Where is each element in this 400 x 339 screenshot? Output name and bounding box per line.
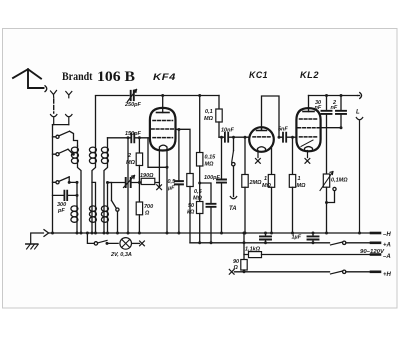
grid wire with capacitor 150pF <box>108 137 151 139</box>
KL2 screen wire <box>321 127 342 129</box>
socket cup 1 <box>51 115 57 125</box>
heater switch <box>94 242 97 245</box>
chassis plug <box>44 230 49 237</box>
coil L1 upper winding <box>71 147 78 152</box>
chassis rail -H <box>49 232 371 234</box>
switch S3 <box>56 181 59 184</box>
resistor 50 kOhm <box>197 202 203 214</box>
switch S4 <box>116 208 119 211</box>
wire v2 <box>138 138 140 153</box>
svg-text:50: 50 <box>188 203 194 209</box>
resistor 2MOhm (KC1 grid) <box>244 137 246 174</box>
svg-text:Brandt: Brandt <box>62 71 93 83</box>
svg-text:0,15: 0,15 <box>205 155 217 161</box>
heater tap x <box>157 183 162 190</box>
svg-text:0,5: 0,5 <box>194 189 203 195</box>
resistor 1 MOhm (KL2 grid) <box>292 137 294 174</box>
capacitor 0.5uF (screen bypass) <box>178 130 180 234</box>
svg-text:10nF: 10nF <box>221 128 234 134</box>
title Brandt 106 B <box>62 69 135 85</box>
KC1 cathode lead to x <box>256 151 261 164</box>
svg-text:Ω: Ω <box>144 211 150 217</box>
coupling capacitor 5nF <box>279 136 297 138</box>
svg-text:106 B: 106 B <box>97 69 135 85</box>
svg-text:1: 1 <box>264 176 267 182</box>
KL2 grid rows <box>300 118 318 120</box>
svg-text:KL2: KL2 <box>300 70 319 80</box>
capacitor 1uF (cathode bypass) <box>200 183 211 243</box>
KL2 anode plate <box>303 111 314 113</box>
coil L2 upper winding (from top rail corner) <box>92 96 96 233</box>
svg-text:L: L <box>356 110 360 116</box>
svg-text:2V, 0,3A: 2V, 0,3A <box>110 252 132 258</box>
filter capacitor 1uF b <box>312 233 314 243</box>
svg-text:150pF: 150pF <box>125 131 142 137</box>
wire v1 to ground <box>127 138 129 233</box>
svg-text:nF: nF <box>331 105 338 111</box>
socket cup 2 <box>66 115 72 125</box>
resistor 0.5 MOhm <box>187 174 193 187</box>
svg-text:0,1MΩ: 0,1MΩ <box>331 178 348 184</box>
KL2 cathode <box>305 147 313 151</box>
KC1 anode loop wire <box>262 96 280 137</box>
resistor 100 Ohm (cathode) <box>139 182 159 184</box>
svg-text:250pF: 250pF <box>124 102 142 108</box>
resistor 700 Ohm <box>136 202 142 215</box>
trimmer capacitor 250pF <box>131 91 134 100</box>
left antenna bus wire <box>52 125 54 233</box>
cathode-grid return <box>148 138 167 167</box>
svg-text:KC1: KC1 <box>249 70 268 80</box>
capacitor 30nF <box>326 96 328 174</box>
coil L1 lower winding <box>76 182 78 206</box>
earth jack Y (unused) <box>66 92 72 98</box>
svg-text:5nF: 5nF <box>278 127 288 133</box>
antenna jack (socket arc) <box>45 86 47 92</box>
switch S4 wire from L3 tap <box>108 183 112 201</box>
KC1 grid row <box>253 136 270 138</box>
KF4 tube envelope <box>150 108 176 151</box>
KF4 cathode <box>159 145 167 150</box>
svg-text:2: 2 <box>127 153 131 159</box>
svg-text:700: 700 <box>144 204 153 210</box>
svg-text:KF4: KF4 <box>153 72 176 82</box>
svg-text:kΩ: kΩ <box>187 210 195 216</box>
KF4 grid rows <box>153 120 173 122</box>
svg-text:100pF: 100pF <box>204 175 221 181</box>
svg-text:0,1: 0,1 <box>205 109 213 115</box>
svg-text:1,1kΩ: 1,1kΩ <box>245 247 261 253</box>
svg-text:MΩ: MΩ <box>205 162 215 168</box>
svg-text:–H: –H <box>383 232 391 238</box>
+A rail <box>190 242 371 244</box>
svg-text:2MΩ: 2MΩ <box>249 180 263 186</box>
svg-text:+H: +H <box>383 272 392 278</box>
KL2 anode rail <box>309 95 358 97</box>
coil L3 upper winding <box>104 138 108 233</box>
KC1 tube envelope <box>249 127 274 152</box>
svg-text:MΩ: MΩ <box>193 196 203 202</box>
variable capacitor (tuning) <box>108 182 140 184</box>
wire S3 to coil L2 lower <box>69 177 77 183</box>
KL2 anode lead <box>308 96 310 112</box>
antenna plug Y <box>51 91 57 98</box>
coupling wire with capacitor 10nF <box>219 136 250 138</box>
svg-text:0,5: 0,5 <box>168 179 177 185</box>
svg-text:–A: –A <box>383 254 391 260</box>
wire S2 tap to coil L1 <box>68 149 73 154</box>
capacitor 100pF column <box>221 137 223 233</box>
resistor 2MOhm (KF4 grid) <box>136 153 142 166</box>
KC1 grid leg / resistor 1 MOhm <box>271 149 273 175</box>
wire joining sockets <box>53 124 69 126</box>
KL2 cathode lead to x <box>305 151 310 164</box>
KF4 anode lead <box>162 96 164 113</box>
switch S2 <box>56 153 59 156</box>
KL2 beam electrode diagonal <box>301 140 313 147</box>
KF4 anode plate <box>157 112 170 114</box>
top anode rail KF4 <box>96 95 220 97</box>
svg-text:+A: +A <box>383 242 391 248</box>
svg-text:MΩ: MΩ <box>262 183 272 189</box>
speaker jack L <box>358 95 360 97</box>
filter capacitor 1uF a <box>265 233 267 243</box>
capacitor 300pF <box>53 194 78 196</box>
KF4 cathode legs <box>158 150 160 182</box>
anode-grid wire to 0.5M column <box>176 129 190 173</box>
TA jack cup <box>230 197 236 199</box>
ground symbol <box>31 233 44 244</box>
KL2 tube envelope <box>296 108 320 151</box>
switch S1 <box>56 135 59 138</box>
resistor 0.1 MOhm <box>218 96 220 110</box>
svg-text:MΩ: MΩ <box>297 183 307 189</box>
KC1 cathode <box>258 147 266 151</box>
svg-text:MΩ: MΩ <box>126 160 136 166</box>
-A rail <box>262 254 372 256</box>
svg-text:1: 1 <box>298 176 301 182</box>
dashed lead from antenna plug <box>53 99 55 113</box>
heater feed from rail <box>87 233 94 243</box>
coil L3 lower winding <box>107 183 109 234</box>
svg-text:pF: pF <box>57 208 65 214</box>
coil L2 lower winding <box>92 182 96 233</box>
svg-text:µF: µF <box>167 186 175 192</box>
resistor 90 Ohm <box>243 255 245 260</box>
dial lamp 2V 0.3A <box>120 238 132 250</box>
svg-text:190Ω: 190Ω <box>140 173 154 179</box>
svg-text:1µF: 1µF <box>292 235 302 241</box>
svg-text:MΩ: MΩ <box>204 116 214 122</box>
svg-text:nF: nF <box>315 105 322 111</box>
TA switch <box>233 137 235 150</box>
resistor 0.15 MOhm column <box>199 96 201 153</box>
capacitor 2nF <box>340 96 342 128</box>
wire S1 to coil L1 <box>70 131 78 146</box>
dropper column <box>244 233 249 255</box>
svg-text:TA: TA <box>229 206 237 212</box>
potentiometer 0.1MOhm (tone) <box>323 174 329 187</box>
KC1 anode plate <box>257 128 267 131</box>
resistor 1.1kOhm <box>249 252 262 258</box>
antenna <box>13 69 44 88</box>
+H rail <box>235 271 372 273</box>
